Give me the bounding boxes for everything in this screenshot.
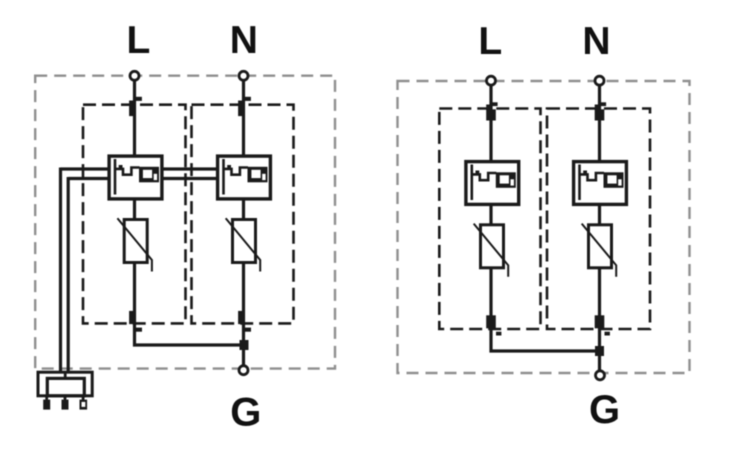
wire N branch (device 2): [598, 81, 601, 375]
remote signalling contact block FM (device 1): [38, 372, 92, 410]
FM terminal 2: [62, 400, 69, 410]
terminal N (device 2): [595, 76, 604, 85]
svg-text:L: L: [478, 20, 502, 63]
disconnector box N (device 1): [218, 156, 271, 199]
wire N branch (device 1): [242, 76, 245, 370]
varistor N (device 2): [582, 224, 617, 277]
plug contact mark L top (device 2): [486, 102, 497, 120]
wire signalling drop B (device 1): [67, 177, 70, 372]
svg-text:N: N: [230, 19, 258, 62]
terminal L (device 2): [487, 76, 496, 85]
outer enclosure (dashed, device 1): [35, 76, 335, 369]
plug contact mark L bottom (device 2): [486, 315, 501, 335]
terminal N (device 1): [239, 71, 248, 80]
terminal G (device 2): [596, 371, 605, 380]
terminal L (device 1): [130, 71, 139, 80]
junction PE node (device 1): [240, 340, 249, 350]
plug contact mark L bottom (device 1): [129, 311, 142, 332]
disconnector box N (device 2): [574, 162, 627, 205]
plug contact mark N top (device 1): [238, 97, 251, 116]
wire signalling rail lower (device 1): [68, 177, 216, 180]
plug-in module N (dashed, device 2): [547, 109, 650, 330]
wire L branch (device 1): [135, 76, 245, 345]
plug contact mark N bottom (device 1): [238, 311, 251, 332]
plug-in module L (dashed, device 1): [83, 105, 186, 324]
wire signalling drop A (device 1): [59, 168, 62, 373]
plug-in module N (dashed, device 1): [192, 105, 294, 324]
disconnector box L (device 1): [109, 156, 162, 199]
FM terminal pin 3: [82, 396, 85, 401]
varistor L (device 1): [117, 218, 152, 271]
svg-text:G: G: [230, 391, 261, 435]
FM terminal 1: [43, 400, 50, 410]
wire signalling rail upper (device 1): [61, 167, 217, 170]
svg-text:G: G: [589, 388, 620, 432]
varistor L (device 2): [474, 224, 509, 277]
plug contact mark L top (device 1): [129, 97, 142, 116]
svg-text:L: L: [126, 19, 150, 62]
FM common pin link: [64, 372, 67, 379]
FM terminal pin 2: [64, 396, 67, 401]
FM terminal pin 1: [45, 396, 48, 401]
FM terminal 3: [80, 400, 88, 410]
plug contact mark N bottom (device 2): [595, 315, 610, 335]
plug-in module L (dashed, device 2): [439, 109, 540, 330]
outer enclosure (dashed, device 2): [398, 81, 690, 373]
junction PE node (device 2): [595, 346, 604, 356]
FM changeover contact: [47, 378, 84, 395]
FM housing: [38, 372, 92, 396]
wire L branch (device 2): [491, 81, 600, 351]
plug contact mark N top (device 2): [595, 102, 606, 120]
svg-text:N: N: [582, 20, 610, 63]
terminal G (device 1): [239, 366, 248, 375]
varistor N (device 1): [226, 218, 261, 271]
disconnector box L (device 2): [466, 162, 519, 205]
